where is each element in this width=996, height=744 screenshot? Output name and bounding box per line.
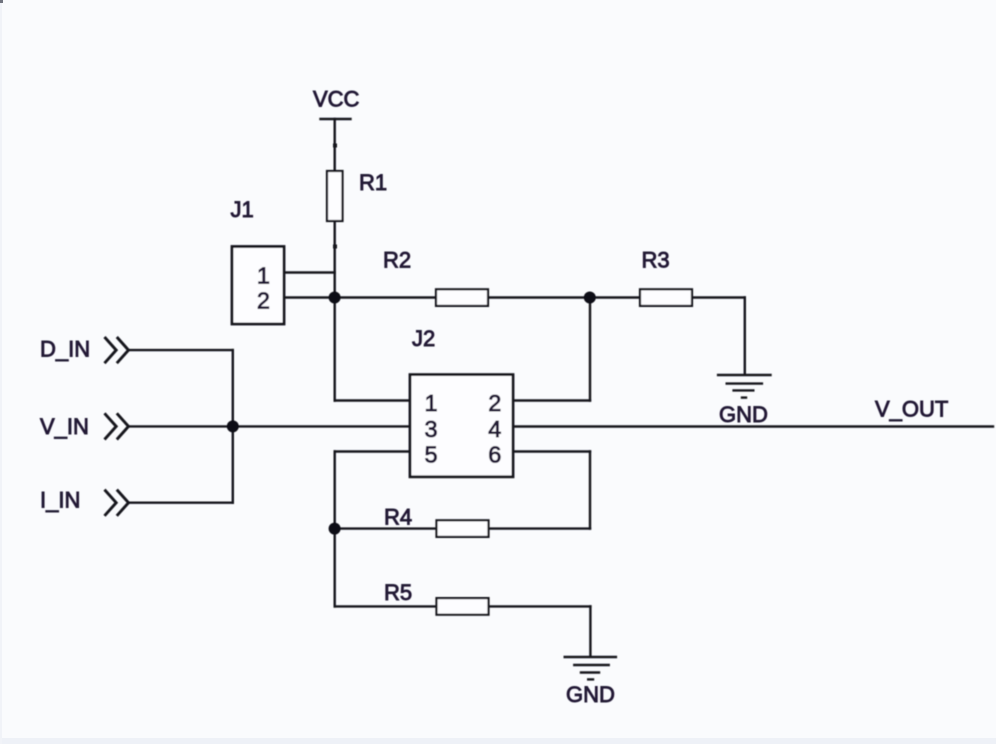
resistor R4 bbox=[437, 520, 489, 537]
port V_IN chevron bbox=[105, 413, 129, 439]
wire node C to R4 bbox=[335, 527, 437, 529]
pin end tick on VCC wire bbox=[333, 144, 337, 148]
svg-text:V_OUT: V_OUT bbox=[875, 397, 948, 422]
svg-text:VCC: VCC bbox=[313, 87, 360, 112]
wire into J2 pin 1 bbox=[335, 399, 411, 401]
svg-text:5: 5 bbox=[425, 442, 438, 468]
wire J2 pin5 branch down to R5 bbox=[334, 452, 336, 607]
junction node A bbox=[329, 292, 341, 304]
wire node A down to J2 pin 1 bbox=[334, 298, 336, 401]
pin end tick below R1 bbox=[333, 245, 337, 249]
wire up to node B bbox=[589, 298, 591, 401]
wire down to bottom ground bbox=[589, 606, 591, 656]
wire R2 to R3 bbox=[488, 296, 640, 298]
svg-text:GND: GND bbox=[719, 402, 768, 427]
resistor R3 bbox=[640, 289, 692, 306]
svg-text:2: 2 bbox=[257, 288, 270, 314]
wire V_IN bbox=[129, 425, 233, 427]
wire R1 to J1 pin1 node bbox=[334, 221, 336, 298]
svg-text:3: 3 bbox=[425, 416, 438, 442]
svg-text:1: 1 bbox=[425, 390, 438, 416]
svg-text:R4: R4 bbox=[384, 505, 412, 530]
svg-text:R1: R1 bbox=[359, 170, 387, 195]
wire VCC to R1 bbox=[334, 119, 336, 171]
junction node C bbox=[329, 523, 341, 535]
wire J2 pin 2 bbox=[514, 399, 591, 401]
wire input bus vertical bbox=[232, 350, 234, 503]
wire I_IN bbox=[129, 502, 233, 504]
svg-text:J1: J1 bbox=[231, 197, 254, 222]
svg-text:R3: R3 bbox=[642, 248, 670, 273]
svg-text:V_IN: V_IN bbox=[40, 414, 89, 439]
junction input node bbox=[227, 420, 239, 432]
wire node C to R5 bbox=[335, 605, 437, 607]
svg-text:4: 4 bbox=[488, 416, 501, 442]
svg-text:R5: R5 bbox=[384, 580, 412, 605]
wire J2 pin 6 bbox=[514, 450, 591, 452]
svg-text:J2: J2 bbox=[412, 326, 435, 351]
svg-text:2: 2 bbox=[488, 390, 501, 416]
svg-text:R2: R2 bbox=[383, 248, 411, 273]
wire D_IN bbox=[129, 349, 233, 351]
svg-text:6: 6 bbox=[488, 442, 501, 468]
wire input node to J2 pin 3 bbox=[233, 425, 411, 427]
resistor R2 bbox=[436, 289, 488, 306]
svg-text:I_IN: I_IN bbox=[40, 488, 80, 513]
wire J2 pin 5 bbox=[335, 450, 411, 452]
svg-text:1: 1 bbox=[257, 263, 270, 289]
wire J1 pin 1 bbox=[284, 271, 335, 273]
power symbol VCC bbox=[321, 118, 351, 120]
junction node B bbox=[584, 292, 596, 304]
port D_IN chevron bbox=[105, 337, 129, 363]
wire R3 to top ground bbox=[692, 296, 745, 298]
wire R4 to pin 6 riser bbox=[489, 527, 590, 529]
svg-text:D_IN: D_IN bbox=[40, 337, 90, 362]
connector J2 bbox=[410, 375, 513, 477]
ground GND bottom bbox=[564, 657, 618, 679]
svg-text:GND: GND bbox=[566, 682, 615, 707]
wire R5 to bottom ground bbox=[489, 605, 591, 607]
wire down to top ground bbox=[744, 298, 746, 375]
wire J1 pin 2 to R2 bbox=[284, 296, 436, 298]
connector J1 bbox=[232, 247, 284, 325]
port I_IN chevron bbox=[105, 490, 129, 516]
resistor R5 bbox=[437, 598, 489, 615]
wire riser to J2 pin 6 bbox=[589, 452, 591, 529]
wire J2 pin 4 to V_OUT bbox=[514, 425, 994, 427]
ground GND top bbox=[717, 375, 772, 398]
resistor R1 bbox=[327, 171, 343, 221]
